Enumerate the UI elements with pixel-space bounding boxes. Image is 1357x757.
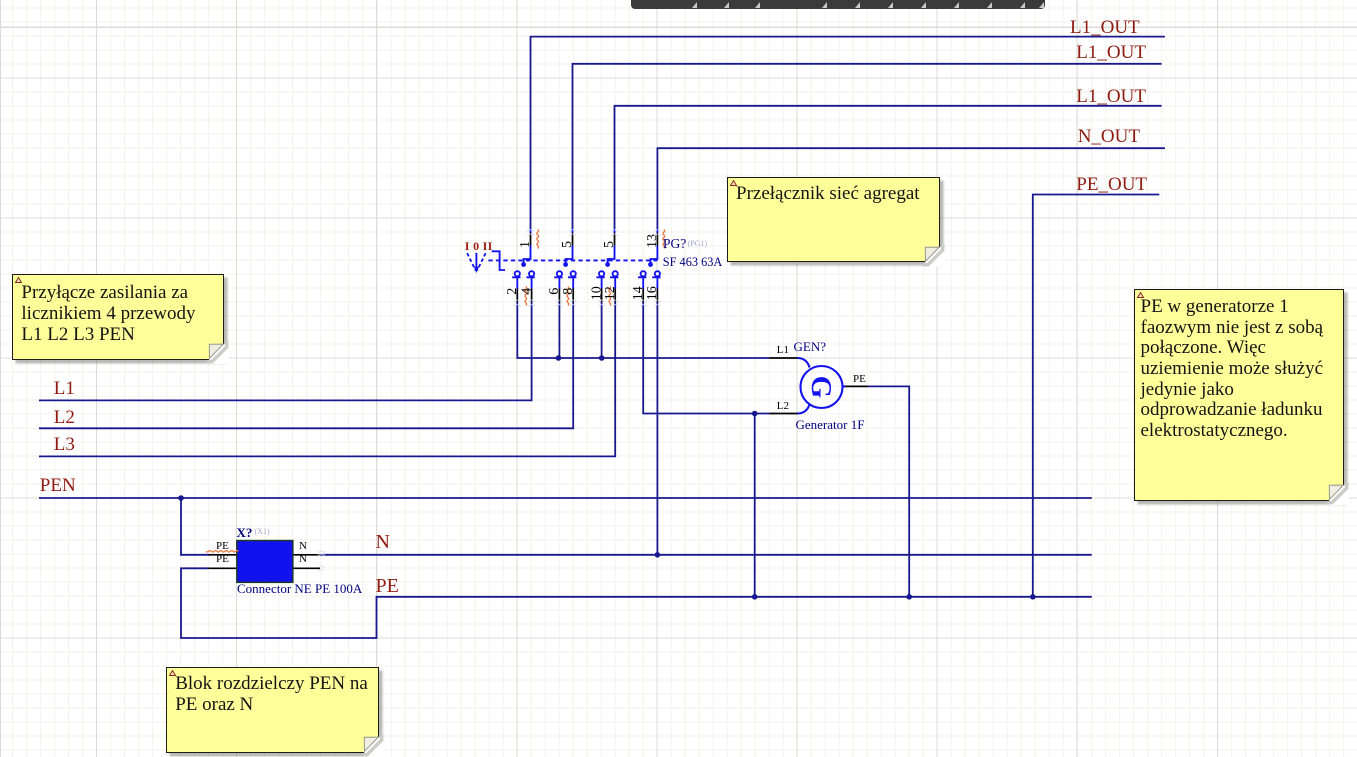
svg-text:2: 2 xyxy=(505,288,520,295)
svg-text:5: 5 xyxy=(560,241,575,248)
svg-text:6: 6 xyxy=(547,288,562,295)
svg-text:1: 1 xyxy=(518,241,533,248)
svg-text:12: 12 xyxy=(603,286,618,300)
svg-text:4: 4 xyxy=(519,288,534,295)
svg-text:G: G xyxy=(805,376,837,399)
svg-text:8: 8 xyxy=(561,288,576,295)
svg-text:14: 14 xyxy=(631,286,646,300)
svg-text:5: 5 xyxy=(602,241,617,248)
svg-text:16: 16 xyxy=(645,286,660,300)
svg-text:13: 13 xyxy=(645,234,660,248)
